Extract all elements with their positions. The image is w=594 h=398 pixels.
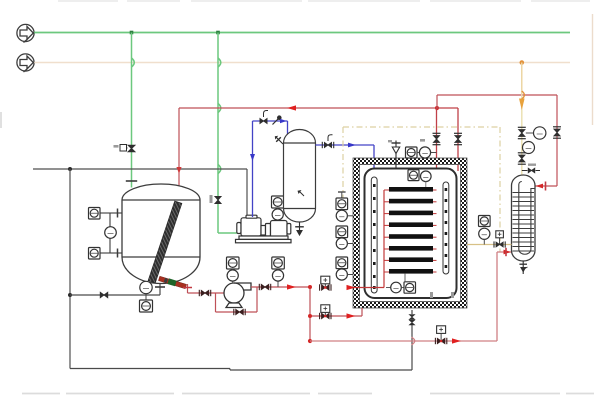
wire: red header to condenser y95 (437, 95, 557, 186)
cropped right page border (592, 14, 594, 125)
condenser bottom drain (519, 261, 527, 274)
condenser C1 shell (512, 175, 536, 261)
instrument TI circle below tank (140, 281, 152, 300)
valve on x458 (454, 133, 462, 144)
chamber top vent fitting (392, 141, 401, 169)
inner instrument pair: circle (421, 171, 432, 187)
wire: red shelf manifold feed x437 (436, 108, 438, 272)
wire: blue vacuum discharge riser (253, 121, 288, 217)
shelf 3 (389, 211, 433, 216)
flange tick condenser bottom inlet (505, 248, 507, 256)
control valve on bottom header (435, 326, 446, 344)
shelf 7 (389, 257, 433, 262)
control valve on vapor duct (494, 231, 505, 248)
red arrow into tank dome (176, 167, 181, 174)
wire: black drain return bottom (70, 310, 412, 370)
vessel vent elbow (275, 136, 283, 144)
chamber right instrument square (479, 216, 491, 227)
valve chamber bottom drain (409, 315, 415, 326)
agitator drive coupling (158, 276, 186, 290)
wire: tank bottom line y295 (70, 281, 160, 295)
instrument TT square below tank (140, 300, 153, 312)
red shelf stubs left (384, 190, 389, 272)
wire: red pump suction from tank (188, 284, 225, 293)
inner instrument pair: square (408, 170, 419, 181)
chamber right instrument circle (479, 228, 490, 244)
flange tick on red outlet (183, 287, 192, 289)
instrument LI circle (105, 227, 117, 239)
flow arrow on discharge (287, 284, 296, 289)
blue flow arrow right (280, 119, 287, 123)
valve on suction (199, 290, 210, 296)
orange flow arrow down (519, 99, 525, 111)
flange tick on green tank nozzle (126, 180, 137, 182)
cropped bottom border dashes (22, 393, 594, 395)
flange tick red tank nozzle (173, 189, 185, 191)
chamber left instrument stack 3 circle (336, 269, 353, 280)
valve with handle on vessel outlet (322, 135, 333, 148)
package boundary dash-dot (343, 127, 500, 252)
control valve on shelf feed y287 (320, 276, 331, 291)
off-page connector 1 (17, 24, 34, 42)
flange tick condenser right inlet (545, 182, 547, 191)
red shelf manifold left (383, 190, 385, 288)
off-page connector 2 (17, 54, 34, 72)
valve on green vacuum line (215, 196, 221, 203)
label smudges assorted (388, 139, 454, 298)
orange jump over red y95 (522, 91, 525, 99)
wire: red bottom header y341 (310, 252, 512, 341)
instrument LSH square (89, 208, 101, 220)
control valve on y316 (320, 305, 331, 319)
valve on green tank line (120, 145, 135, 152)
node: red dot y287 (308, 285, 312, 289)
instrument LSL square (89, 248, 101, 260)
vessel internal dip tube mark (298, 190, 305, 196)
green supply header (34, 32, 570, 34)
label smudge near valve (114, 145, 119, 148)
wire: black drop to vacuum pump x247 (246, 169, 248, 217)
node: red junction dot (435, 106, 439, 110)
node: green header junction A (130, 31, 134, 35)
red shelf stubs right (433, 190, 437, 272)
red flow arrow y316 (347, 313, 356, 318)
instrument PI square on discharge (272, 257, 285, 269)
tank T1 shell (122, 184, 200, 284)
shelf 6 (389, 246, 433, 251)
condenser coil rungs (513, 193, 535, 252)
instrument circle above motor (272, 208, 283, 221)
wire: red feed into chamber y287 (353, 287, 384, 289)
valve on yellow riser upper (518, 127, 526, 138)
orange upper segment (521, 63, 523, 96)
shelf 8 (389, 269, 433, 274)
vent tee valve at condenser top (522, 168, 540, 173)
cropped top border dashes (58, 0, 590, 2)
label smudge DN (528, 164, 536, 166)
valve on yellow riser lower (518, 153, 526, 164)
wire: black drop x70 (69, 169, 71, 369)
red arrow into condenser bottom (504, 250, 512, 255)
node: red dot y341 (308, 339, 312, 343)
valve on red condenser line x557 (553, 127, 561, 138)
label smudge (210, 195, 213, 203)
instrument PI square above pump (227, 257, 240, 269)
bottom inner instrument square (401, 282, 415, 293)
chamber left instrument stack 3 square (336, 257, 348, 269)
node: green header junction B (216, 31, 220, 35)
vessel bottom drain (295, 222, 304, 235)
red jump over black drain (412, 337, 415, 345)
shelf 5 (389, 234, 433, 239)
bottom inner instrument circle (386, 282, 401, 293)
node: junction dot (68, 293, 72, 297)
wire jumps on green x218 (218, 58, 221, 174)
chamber inner shell (365, 169, 457, 299)
wire: inner drop to bottom instruments (404, 274, 406, 282)
red flow arrow bottom header (452, 338, 461, 343)
wire: red pump discharge (251, 286, 310, 288)
left edge artifact (0, 112, 2, 128)
condenser inner U tube (519, 182, 535, 255)
valve on discharge (259, 284, 270, 290)
valve on x437 (433, 133, 441, 144)
tank left nozzle stubs (100, 209, 122, 258)
wire: black utility header y169 (33, 168, 247, 170)
node: orange junction on pale header (520, 60, 525, 65)
chamber wall hatched band (353, 158, 467, 308)
pump P1 centrifugal (224, 283, 251, 308)
wire: red CIP supply y108 (179, 108, 437, 193)
flange tick tank bottom (155, 286, 165, 288)
wire: red recirculation loop (216, 287, 258, 312)
chamber left instrument stack 2 circle (336, 238, 353, 249)
wire: red bottom spray feed y316 (310, 308, 362, 316)
shelf 1 (389, 187, 433, 192)
valve with handle on blue line (260, 111, 268, 124)
wire jump: green over pale header (132, 58, 135, 67)
check valve on blue line (273, 116, 281, 125)
valve on tank bottom line (100, 292, 108, 298)
wire: yellow vent riser x522 (521, 63, 523, 175)
instrument circle on discharge (272, 269, 283, 287)
knockout vessel V1 (284, 130, 316, 223)
chamber left instrument stack 1 circle (336, 210, 353, 221)
wire: blue vessel outlet to chamber (316, 145, 375, 177)
wire: red jacket line x458 (437, 108, 458, 171)
left probe bar (371, 177, 377, 293)
instrument pair on chamber top: circle (417, 147, 437, 158)
instrument circle lower (523, 142, 535, 154)
wire: red riser x310 (309, 287, 311, 341)
chamber left instrument stack 2 square (336, 226, 348, 238)
shelf 2 (389, 199, 433, 204)
wire: green drop to tank x131 (131, 33, 133, 188)
instrument pair on chamber top: square (406, 147, 418, 158)
wire: green drop x218 to vacuum pump (218, 33, 240, 234)
vacuum pump VP1 body (236, 215, 292, 243)
shelf 4 (389, 222, 433, 227)
chamber left instrument stack 1 square (336, 192, 348, 210)
valve on recirculation (234, 309, 245, 315)
red flow arrow into chamber y287 (347, 285, 356, 290)
node: junction dot (68, 167, 72, 171)
flow arrow left on red y108 (287, 105, 296, 110)
instrument circle above pump (227, 269, 238, 283)
instrument square above motor (272, 196, 285, 208)
red arrow into condenser right (536, 184, 544, 189)
agitator shaft (148, 201, 182, 283)
wire: tan vapor duct to condenser (467, 244, 512, 246)
blue flow arrow to chamber (348, 143, 356, 148)
instrument circle right of valve (526, 127, 546, 139)
node: red dot y316 (308, 314, 312, 318)
pale utility header (34, 62, 570, 64)
blue flow arrow down (250, 154, 255, 161)
right probe bar (443, 182, 449, 274)
